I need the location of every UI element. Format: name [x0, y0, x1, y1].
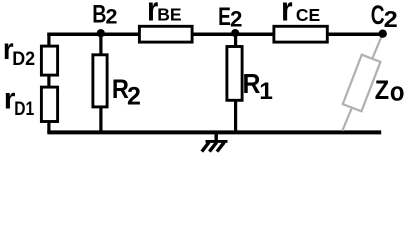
label rD2 letter r — [3, 33, 14, 66]
resistor rCE body — [274, 26, 327, 42]
node B2 junction dot — [97, 29, 105, 37]
label node E2 subscript — [230, 7, 242, 32]
label R1 subscript — [259, 78, 273, 105]
node E2 junction dot — [231, 29, 239, 37]
svg-text:CE: CE — [296, 5, 320, 25]
label rD1 letter r — [4, 83, 16, 116]
node C2 terminal dot — [379, 30, 387, 38]
wire: R2 branch vertical from node B2 to bottom bus — [99, 33, 102, 132]
svg-text:E: E — [218, 2, 231, 30]
wire: R1 branch vertical from node E2 to bottom bus — [234, 33, 237, 132]
resistor R2 body — [93, 55, 107, 107]
label Zo letter — [375, 76, 389, 106]
wire: bottom ground rail — [47, 130, 381, 134]
label rCE letter r — [281, 0, 293, 28]
svg-text:BE: BE — [157, 5, 181, 25]
resistor rBE body — [139, 26, 192, 42]
label rD1 subscript D1 — [14, 97, 34, 119]
label node B2 subscript — [106, 5, 118, 29]
label node C2 letter — [371, 0, 385, 30]
svg-text:D1: D1 — [14, 97, 34, 119]
impedance Zo diagonal branch (gray) from node C2 to ground rail — [342, 35, 382, 131]
label node E2 letter — [218, 2, 231, 30]
label Zo subscript — [390, 78, 405, 107]
svg-text:1: 1 — [259, 78, 273, 105]
resistor rD1 body — [41, 87, 57, 121]
label rCE subscript CE — [296, 5, 320, 25]
label rBE letter r — [147, 0, 158, 28]
label node C2 subscript — [384, 7, 398, 33]
svg-text:B: B — [92, 0, 106, 28]
label R1 letter — [243, 68, 261, 100]
svg-text:D2: D2 — [12, 47, 35, 69]
resistor rD2 body — [41, 46, 57, 75]
svg-text:2: 2 — [106, 5, 118, 29]
label rBE subscript BE — [157, 5, 181, 25]
wire: top bus from left branch through B2, E2 to C2 — [47, 33, 384, 37]
label node B2 letter — [92, 0, 106, 28]
label R2 subscript — [127, 83, 141, 111]
label rD2 subscript D2 — [12, 47, 35, 69]
resistor R1 body — [227, 47, 242, 101]
svg-text:2: 2 — [230, 7, 242, 32]
svg-text:o: o — [390, 78, 405, 107]
svg-text:2: 2 — [384, 7, 398, 33]
svg-text:r: r — [281, 0, 293, 28]
label R2 letter — [112, 75, 129, 105]
svg-text:C: C — [371, 0, 385, 30]
svg-text:2: 2 — [127, 83, 141, 111]
ground symbol — [202, 132, 228, 151]
svg-text:R: R — [243, 68, 261, 100]
wire: left branch vertical (rD2/rD1 string) — [47, 33, 50, 133]
svg-text:Z: Z — [375, 76, 389, 106]
